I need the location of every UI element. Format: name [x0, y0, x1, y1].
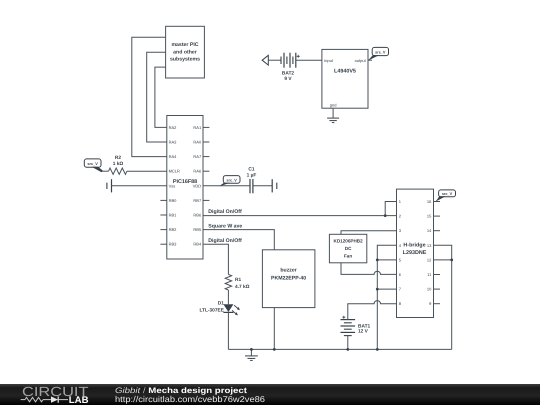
wire RB6 to H-bridge pin 2	[203, 215, 397, 217]
svg-text:KD1206PHB2: KD1206PHB2	[334, 239, 364, 244]
H-bridge right pin numbers 16-9	[427, 199, 432, 306]
wire R2 to PIC MCLR	[127, 170, 167, 172]
svg-text:http://circuitlab.com/cvebb76w: http://circuitlab.com/cvebb76w2ve86	[115, 394, 265, 404]
wire H-bridge pin 16 stub	[434, 201, 441, 203]
wire master box to PIC RA3	[147, 52, 167, 142]
wire H-bridge pin 12 to right vertical	[434, 259, 452, 261]
battery cell V1 at Vss	[107, 179, 112, 192]
junction buzzer/rail	[273, 348, 276, 351]
svg-text:Fan: Fan	[344, 254, 352, 259]
svg-text:Digital On/Off: Digital On/Off	[208, 209, 242, 215]
resistor R2 1 kOhm	[103, 155, 127, 175]
svg-text:R1: R1	[235, 277, 241, 283]
net flag src_V (VDD net)	[219, 176, 240, 187]
wire BAT2 to regulator input	[296, 59, 322, 61]
net flag src_V (MCLR net)	[84, 159, 103, 172]
regulator U3 L4940V5	[322, 49, 368, 108]
svg-text:src_V: src_V	[226, 178, 237, 182]
ground symbol under regulator	[327, 118, 339, 123]
ground rail wire	[228, 348, 451, 350]
svg-text:RB4: RB4	[193, 242, 202, 247]
battery BAT2 9 V	[281, 53, 300, 82]
wire fan top to H-bridge pin 3	[341, 231, 397, 235]
svg-text:subsystems: subsystems	[170, 57, 200, 63]
svg-text:BAT1: BAT1	[358, 324, 371, 330]
wire H-bridge pin 7 to bus	[377, 288, 396, 290]
svg-text:15: 15	[427, 214, 432, 219]
svg-text:RA7: RA7	[193, 154, 202, 159]
svg-text:src_V: src_V	[442, 192, 453, 196]
svg-text:D1: D1	[218, 301, 224, 307]
svg-text:H-bridge: H-bridge	[403, 242, 425, 248]
svg-text:RB0: RB0	[169, 198, 178, 203]
wire regulator gnd pin	[332, 108, 334, 118]
wire BAT1 plus to H-bridge pin 8 (hop over bus)	[348, 301, 397, 320]
svg-text:RA4: RA4	[169, 154, 178, 159]
svg-text:input: input	[324, 58, 334, 63]
svg-text:L293DNE: L293DNE	[403, 250, 427, 256]
fan M1 KD1206PHB2	[329, 234, 366, 262]
wire BAT1 minus to ground rail	[347, 336, 349, 350]
svg-text:buzzer: buzzer	[280, 268, 296, 274]
buzzer PKM22EPP-40	[262, 250, 315, 308]
net flag src_V (pin 16)	[435, 190, 455, 202]
IC U2 PIC16F88	[167, 116, 203, 260]
IC U1 H-bridge L293DNE	[397, 189, 434, 317]
battery BAT1 12 V	[341, 316, 371, 336]
svg-text:16: 16	[427, 199, 432, 204]
svg-text:output: output	[355, 58, 367, 63]
svg-text:10: 10	[427, 287, 432, 292]
block: master PIC and other subsystems	[166, 26, 205, 78]
junction ground/rail	[250, 348, 253, 351]
junction BAT1/rail	[346, 348, 349, 351]
svg-text:R2: R2	[115, 155, 121, 161]
svg-text:9 V: 9 V	[284, 76, 292, 82]
battery cell V2	[272, 179, 277, 192]
svg-text:RB3: RB3	[169, 242, 178, 247]
svg-text:MCLR: MCLR	[169, 169, 180, 174]
junction pin 12	[450, 259, 453, 262]
svg-text:RA3: RA3	[169, 140, 178, 145]
svg-text:4.7 kΩ: 4.7 kΩ	[235, 284, 250, 290]
svg-text:LTL-307EE: LTL-307EE	[199, 307, 224, 313]
junction pin 7 bus	[376, 288, 379, 291]
wire fan bottom to H-bridge pin 6 (hop over bus)	[341, 263, 397, 275]
wire regulator output stub	[368, 59, 372, 61]
svg-text:Square W ave: Square W ave	[208, 224, 242, 230]
junction pin 5 bus	[376, 259, 379, 262]
junction pin1/pin2 net	[384, 214, 387, 217]
PIC left pin labels	[169, 125, 180, 247]
wire R1 to D1	[227, 290, 229, 304]
wire RB4 to R1	[203, 244, 228, 274]
svg-text:1 µF: 1 µF	[247, 173, 257, 179]
PIC unconnected left pin stubs RB0-RB3	[160, 200, 166, 244]
svg-text:and other: and other	[173, 49, 197, 55]
svg-text:PKM22EPP-40: PKM22EPP-40	[271, 276, 306, 282]
net flag triangle (BAT2 minus)	[262, 55, 268, 65]
PIC unconnected right pin stubs RA1 RA0 RA7 RA6 RB7	[203, 127, 209, 200]
svg-text:RA6: RA6	[193, 169, 202, 174]
svg-text:src_V: src_V	[375, 51, 386, 55]
svg-text:12: 12	[427, 257, 432, 262]
wire C1 to cell V2	[253, 185, 272, 187]
svg-text:LAB: LAB	[69, 395, 89, 405]
svg-text:Vss: Vss	[169, 183, 176, 188]
wire D1 to ground rail	[227, 312, 229, 349]
wire RB5 to buzzer	[203, 230, 274, 250]
junction bus/rail	[376, 348, 379, 351]
wire H-bridge pin 4 to bus	[377, 245, 396, 349]
wire H-bridge pin 1 to pin 2 net	[385, 202, 396, 216]
svg-text:BAT2: BAT2	[282, 71, 295, 77]
svg-text:RB7: RB7	[193, 198, 202, 203]
wire master box to PIC RA2	[155, 67, 167, 127]
svg-text:DC: DC	[345, 246, 352, 251]
capacitor C1 1 uF	[247, 167, 257, 194]
svg-text:src_V: src_V	[87, 162, 98, 166]
wire buzzer to ground rail	[273, 308, 275, 350]
net flag src_V (regulator output)	[368, 47, 389, 60]
PIC right pin labels	[193, 125, 202, 247]
logo mini schematic: wire resistor diode	[21, 396, 68, 402]
svg-text:RB5: RB5	[193, 227, 202, 232]
svg-text:RB2: RB2	[169, 227, 178, 232]
svg-text:RB1: RB1	[169, 213, 178, 218]
wire H-bridge pin 5 to bus	[377, 259, 396, 261]
resistor R1 4.7 kOhm	[225, 274, 249, 290]
svg-text:RA0: RA0	[193, 140, 202, 145]
svg-text:RA2: RA2	[169, 125, 178, 130]
svg-text:RA1: RA1	[193, 125, 202, 130]
wire PIC VDD to C1	[203, 185, 250, 187]
wire cell to PIC Vss	[112, 185, 167, 187]
svg-text:master PIC: master PIC	[171, 42, 198, 48]
svg-text:RB6: RB6	[193, 213, 202, 218]
svg-text:12 V: 12 V	[358, 329, 369, 335]
svg-text:L4940V5: L4940V5	[334, 69, 356, 75]
svg-text:13: 13	[427, 243, 432, 248]
svg-text:VDD: VDD	[193, 183, 202, 188]
H-bridge left pin numbers 1-8	[399, 199, 402, 306]
LED D1 LTL-307EE	[199, 301, 239, 316]
wire flag to BAT2	[268, 59, 281, 61]
ground symbol on rail	[245, 349, 258, 360]
wire H-bridge pin 13 to right vertical	[434, 245, 452, 349]
wire master box to PIC RA4	[132, 37, 167, 156]
svg-text:Digital On/Off: Digital On/Off	[208, 238, 242, 244]
svg-text:1 kΩ: 1 kΩ	[113, 161, 124, 167]
H-bridge unconnected right stubs pins 15 14 11 10 9	[434, 216, 441, 304]
svg-text:C1: C1	[248, 167, 254, 173]
svg-text:gnd: gnd	[330, 102, 337, 107]
svg-text:14: 14	[427, 228, 432, 233]
